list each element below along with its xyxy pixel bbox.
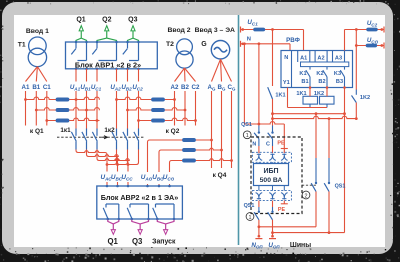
svg-text:Ввод 1: Ввод 1 [26,28,49,35]
svg-text:N: N [247,37,251,43]
svg-text:BG: BG [218,84,226,91]
svg-text:500 ВА: 500 ВА [260,177,283,184]
svg-text:Шины: Шины [290,242,311,249]
svg-text:K3: K3 [334,71,341,77]
svg-text:1K2: 1K2 [360,95,370,101]
svg-text:G: G [201,41,207,48]
svg-text:Ввод 2: Ввод 2 [167,27,190,34]
svg-text:C: C [266,142,270,148]
svg-text:к Q2: к Q2 [166,128,180,135]
svg-text:к Q1: к Q1 [30,128,44,135]
svg-text:UСG: UСG [367,37,379,44]
svg-text:K1: K1 [299,71,306,77]
svg-text:Q3: Q3 [128,17,137,24]
svg-text:A2: A2 [317,56,324,62]
svg-text:1: 1 [249,215,252,221]
svg-text:UСG: UСG [163,174,175,181]
svg-text:1к2: 1к2 [104,127,115,134]
svg-text:1: 1 [246,133,249,139]
svg-text:UВ2: UВ2 [121,84,132,91]
svg-text:A1: A1 [300,56,307,62]
svg-text:2: 2 [305,193,308,199]
svg-text:Q3: Q3 [132,237,143,246]
svg-text:B1: B1 [301,79,308,85]
svg-text:B2: B2 [181,84,189,91]
svg-text:UА2: UА2 [110,84,121,91]
svg-text:QS1: QS1 [335,184,346,190]
svg-text:UОП: UОП [268,242,280,249]
svg-text:UС1: UС1 [247,19,258,26]
svg-text:UС2: UС2 [132,84,143,91]
svg-text:Q1: Q1 [107,237,118,246]
svg-text:UА1: UА1 [70,84,81,91]
svg-text:A1: A1 [22,84,30,91]
svg-text:1K1: 1K1 [275,93,285,99]
svg-text:Q2: Q2 [102,17,111,24]
svg-text:Т2: Т2 [166,41,174,48]
svg-text:NОП: NОП [251,242,263,249]
svg-text:C1: C1 [43,84,51,91]
svg-text:N: N [284,55,288,61]
svg-text:Ввод 3 – ЭА: Ввод 3 – ЭА [195,27,235,34]
svg-text:1к1: 1к1 [60,127,71,134]
svg-text:K2: K2 [316,71,323,77]
svg-text:B2: B2 [318,79,325,85]
svg-text:UС2: UС2 [367,20,378,27]
svg-text:Y1: Y1 [283,80,290,86]
svg-text:B3: B3 [336,79,343,85]
svg-text:ИБП: ИБП [263,168,278,175]
svg-text:C2: C2 [192,84,200,91]
svg-text:AG: AG [208,84,216,91]
svg-text:B1: B1 [32,84,40,91]
svg-text:Блок АВР1 «2 в 2»: Блок АВР1 «2 в 2» [75,60,141,69]
svg-text:A3: A3 [335,56,342,62]
svg-text:UВ1: UВ1 [80,84,91,91]
svg-text:QS1: QS1 [241,122,252,128]
svg-text:QS1: QS1 [244,203,255,209]
svg-text:N: N [252,142,256,148]
svg-text:UСС: UСС [121,174,133,181]
svg-text:к Q4: к Q4 [213,172,227,179]
svg-text:PE: PE [278,207,286,213]
svg-text:Запуск: Запуск [152,239,176,246]
svg-text:Q1: Q1 [76,17,85,24]
svg-text:Блок АВР2 «2 в 1 ЭА»: Блок АВР2 «2 в 1 ЭА» [101,193,179,202]
svg-text:Т1: Т1 [18,41,26,48]
svg-text:UАG: UАG [141,174,153,181]
svg-text:РВФ: РВФ [286,37,300,44]
svg-text:A2: A2 [171,84,179,91]
svg-text:PE: PE [277,140,285,146]
svg-text:UС1: UС1 [91,84,102,91]
svg-text:CG: CG [228,84,236,91]
